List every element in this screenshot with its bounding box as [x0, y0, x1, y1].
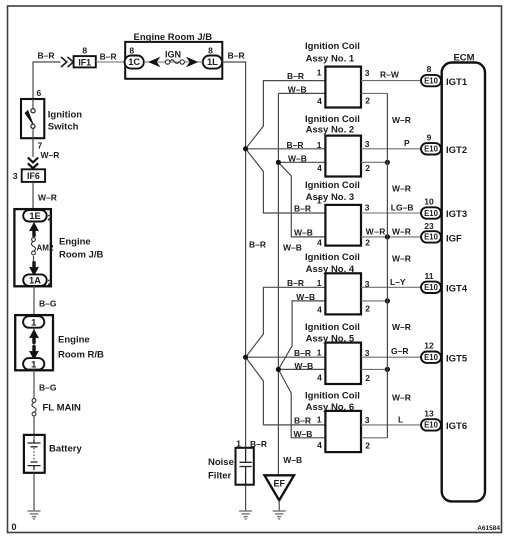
svg-text:7: 7 [38, 141, 43, 151]
svg-text:B–G: B–G [39, 383, 57, 393]
svg-text:11: 11 [425, 271, 434, 281]
svg-text:IGT1: IGT1 [446, 77, 468, 88]
svg-text:Room R/B: Room R/B [58, 350, 104, 361]
svg-text:IGT6: IGT6 [446, 421, 467, 432]
svg-text:10: 10 [424, 197, 434, 207]
svg-text:3: 3 [365, 348, 370, 358]
svg-text:Assy No. 2: Assy No. 2 [306, 125, 355, 136]
svg-text:Engine: Engine [59, 237, 91, 248]
svg-text:1: 1 [31, 317, 36, 327]
svg-text:B–R: B–R [294, 348, 311, 358]
svg-text:B–R: B–R [294, 415, 311, 425]
svg-text:W–B: W–B [294, 361, 313, 371]
svg-text:4: 4 [317, 440, 322, 450]
svg-text:W–R: W–R [392, 254, 411, 264]
svg-text:W–R: W–R [392, 393, 411, 403]
svg-text:Noise: Noise [208, 457, 234, 468]
svg-text:13: 13 [424, 408, 434, 418]
svg-text:1: 1 [317, 140, 322, 150]
svg-text:W–B: W–B [294, 429, 313, 439]
svg-text:0: 0 [12, 522, 17, 532]
svg-text:R–W: R–W [380, 70, 400, 80]
svg-text:1L: 1L [207, 57, 218, 67]
svg-text:3: 3 [365, 415, 370, 425]
svg-text:1: 1 [317, 348, 322, 358]
svg-text:AM2: AM2 [37, 244, 54, 253]
svg-text:1: 1 [317, 68, 322, 78]
svg-text:1: 1 [317, 415, 322, 425]
svg-text:B–R: B–R [287, 278, 304, 288]
svg-text:W–R: W–R [392, 115, 411, 125]
svg-text:B–R: B–R [287, 140, 304, 150]
svg-text:2: 2 [365, 373, 370, 383]
svg-text:B–R: B–R [38, 51, 55, 61]
svg-text:L–Y: L–Y [390, 277, 406, 287]
svg-text:W–R: W–R [38, 193, 57, 203]
svg-text:1A: 1A [29, 276, 41, 286]
svg-text:B–R: B–R [249, 240, 266, 250]
svg-text:W–R: W–R [41, 150, 60, 160]
svg-text:B–R: B–R [100, 52, 117, 62]
svg-text:8: 8 [129, 45, 134, 55]
svg-text:EF: EF [273, 478, 285, 488]
svg-text:Filter: Filter [208, 471, 232, 482]
svg-text:23: 23 [424, 221, 434, 231]
svg-text:L: L [398, 414, 403, 424]
svg-text:IGT3: IGT3 [446, 209, 467, 220]
svg-text:W–B: W–B [283, 455, 302, 465]
svg-text:W–R: W–R [392, 184, 411, 194]
svg-text:IF6: IF6 [27, 171, 40, 181]
svg-text:4: 4 [317, 238, 322, 248]
svg-text:Ignition Coil: Ignition Coil [305, 114, 360, 125]
svg-text:2: 2 [365, 237, 370, 247]
svg-text:Switch: Switch [48, 121, 79, 132]
svg-text:IGF: IGF [446, 233, 462, 244]
svg-text:Battery: Battery [49, 444, 82, 455]
svg-text:1E: 1E [29, 211, 40, 221]
svg-text:2: 2 [365, 163, 370, 173]
svg-text:IGN: IGN [165, 50, 181, 60]
svg-text:Ignition Coil: Ignition Coil [305, 391, 360, 402]
svg-text:IGT4: IGT4 [446, 284, 468, 295]
svg-text:Engine: Engine [58, 335, 90, 346]
svg-text:2: 2 [48, 213, 53, 223]
svg-text:W–B: W–B [288, 153, 307, 163]
svg-text:3: 3 [365, 139, 370, 149]
svg-text:Assy No. 3: Assy No. 3 [306, 192, 355, 203]
svg-text:Ignition Coil: Ignition Coil [305, 180, 360, 191]
svg-text:Ignition Coil: Ignition Coil [305, 41, 360, 52]
svg-text:4: 4 [317, 305, 322, 315]
svg-text:3: 3 [365, 203, 370, 213]
svg-text:B–R: B–R [294, 204, 311, 214]
svg-text:Ignition: Ignition [48, 110, 82, 121]
svg-text:4: 4 [317, 163, 322, 173]
svg-text:2: 2 [48, 278, 53, 288]
svg-text:W–B: W–B [294, 227, 313, 237]
svg-text:2: 2 [365, 441, 370, 451]
svg-text:1: 1 [31, 359, 36, 369]
svg-text:8: 8 [82, 46, 87, 56]
svg-text:LG–B: LG–B [391, 203, 414, 213]
svg-text:W–R: W–R [392, 227, 411, 237]
svg-text:W–R: W–R [392, 322, 411, 332]
svg-text:1: 1 [317, 278, 322, 288]
svg-text:G–R: G–R [391, 346, 408, 356]
svg-text:A61584: A61584 [477, 525, 500, 532]
svg-text:3: 3 [365, 68, 370, 78]
svg-text:Room J/B: Room J/B [59, 250, 103, 261]
svg-text:W–R: W–R [366, 227, 386, 237]
svg-text:1C: 1C [128, 57, 140, 67]
svg-text:2: 2 [365, 95, 370, 105]
svg-text:4: 4 [317, 96, 322, 106]
svg-text:12: 12 [424, 341, 434, 351]
svg-text:Ignition Coil: Ignition Coil [305, 322, 360, 333]
svg-text:W–B: W–B [283, 243, 302, 253]
svg-text:8: 8 [427, 64, 432, 74]
svg-text:W–B: W–B [288, 85, 307, 95]
svg-text:B–G: B–G [39, 299, 57, 309]
svg-text:IF1: IF1 [78, 57, 91, 67]
svg-text:8: 8 [208, 45, 213, 55]
svg-text:Ignition Coil: Ignition Coil [305, 252, 360, 263]
svg-text:IGT5: IGT5 [446, 353, 468, 364]
svg-text:FL MAIN: FL MAIN [43, 403, 81, 414]
svg-text:4: 4 [317, 373, 322, 383]
svg-text:Assy No. 1: Assy No. 1 [306, 53, 355, 64]
svg-text:1: 1 [317, 196, 322, 206]
svg-text:3: 3 [13, 171, 18, 181]
svg-text:W–B: W–B [296, 292, 315, 302]
svg-text:B–R: B–R [287, 71, 304, 81]
svg-text:6: 6 [37, 88, 42, 98]
svg-text:9: 9 [427, 132, 432, 142]
svg-text:IGT2: IGT2 [446, 145, 467, 156]
svg-text:2: 2 [365, 304, 370, 314]
svg-text:P: P [404, 138, 410, 148]
svg-text:B–R: B–R [228, 51, 245, 61]
